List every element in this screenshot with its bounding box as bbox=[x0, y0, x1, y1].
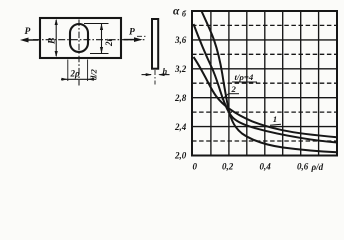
svg-text:d/2: d/2 bbox=[89, 68, 99, 80]
svg-text:P: P bbox=[129, 28, 135, 38]
svg-text:P: P bbox=[25, 27, 31, 37]
solid horizontal grid (0.4 steps) bbox=[192, 40, 337, 127]
svg-text:0,6: 0,6 bbox=[297, 162, 309, 172]
svg-text:ρ/d: ρ/d bbox=[311, 162, 324, 172]
left force arrow P bbox=[25, 39, 39, 41]
svg-text:2ρ: 2ρ bbox=[70, 69, 81, 79]
svg-text:B: B bbox=[48, 38, 58, 45]
slot (oblong hole) bbox=[70, 24, 88, 52]
svg-text:0,2: 0,2 bbox=[222, 162, 234, 172]
svg-text:2,0: 2,0 bbox=[174, 151, 187, 161]
svg-text:t/ρ=4: t/ρ=4 bbox=[235, 72, 254, 82]
side view bar bbox=[152, 19, 158, 69]
vertical grid lines bbox=[211, 11, 319, 156]
B dimension line bbox=[55, 20, 57, 56]
svg-text:3,2: 3,2 bbox=[174, 64, 187, 74]
svg-text:2: 2 bbox=[231, 84, 237, 94]
2rho dimension below plate bbox=[67, 60, 69, 82]
curve t/rho=2 bbox=[194, 24, 338, 143]
h dimension bbox=[142, 74, 152, 76]
horizontal centerline bbox=[33, 39, 146, 41]
2t dimension bbox=[84, 23, 109, 25]
svg-text:2,8: 2,8 bbox=[174, 93, 187, 103]
slot vertical centerline bbox=[78, 20, 80, 86]
svg-text:2,4: 2,4 bbox=[174, 122, 187, 132]
plot border bbox=[192, 11, 337, 156]
right force arrow P bbox=[124, 39, 137, 41]
svg-text:0,4: 0,4 bbox=[260, 162, 272, 172]
svg-text:2t: 2t bbox=[104, 39, 114, 48]
curve t/rho=1 bbox=[194, 57, 338, 137]
curve t/rho=4 bbox=[202, 11, 338, 152]
svg-text:3,6: 3,6 bbox=[174, 35, 187, 45]
svg-text:α: α bbox=[173, 6, 180, 18]
axis labels bbox=[173, 6, 324, 173]
svg-text:h: h bbox=[163, 66, 168, 76]
svg-text:0: 0 bbox=[193, 162, 198, 172]
plate outline bbox=[40, 18, 121, 58]
svg-text:1: 1 bbox=[273, 114, 277, 124]
dashed horizontal grid (0.2 steps) bbox=[192, 25, 337, 141]
